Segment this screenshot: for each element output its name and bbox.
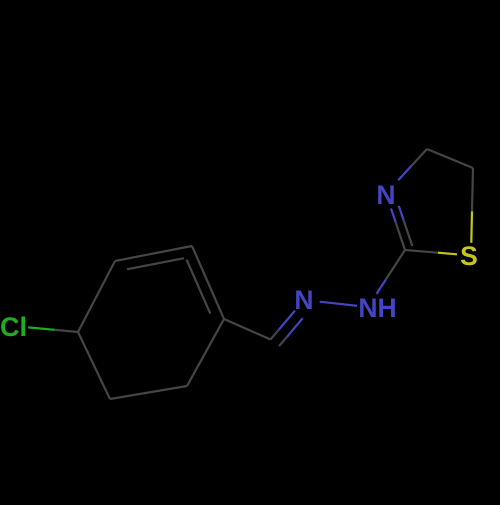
bond C4-C5 (CH2-CH2)	[427, 149, 473, 168]
bond N3-C4 (#454545 half)	[411, 149, 427, 166]
bond C2=N3 second line (#4545c4 half)	[399, 206, 404, 220]
bond Cl-C1 (aryl chloride) (#1fae1f half)	[28, 327, 54, 329]
bond C2=N3 main line (#4545c4 half)	[391, 209, 396, 223]
benzene edge C3-C4 (double)	[192, 246, 224, 319]
bond CH=N1 second line (#454545 half)	[279, 337, 287, 346]
benzene C2=C3 inner double-bond line	[127, 258, 184, 269]
bond S-C2 (#454545 half)	[405, 250, 438, 253]
bond N2-C2 (NH to thiazoline C2) (#454545 half)	[386, 250, 405, 280]
bond CH=N1 second line (#4545c4 half)	[287, 318, 303, 337]
bond C2=N3 second line (#454545 half)	[403, 220, 412, 246]
svg-text:S: S	[460, 241, 478, 271]
bond C2=N3 main line (#454545 half)	[396, 222, 405, 250]
svg-text:NH: NH	[358, 293, 396, 323]
svg-text:N: N	[294, 285, 313, 315]
bond S-C2 (#c6c619 half)	[438, 253, 457, 255]
bond C5-S (#c6c619 half)	[470, 211, 473, 242]
bond C4-CH (benzylidene CH)	[224, 319, 271, 340]
bond N1-N2 (hydrazine N-N)	[320, 302, 357, 306]
bond N3-C4 (#4545c4 half)	[398, 166, 411, 180]
svg-text:Cl: Cl	[0, 312, 27, 342]
benzene edge C6-C1	[78, 332, 110, 399]
bond N2-C2 (NH to thiazoline C2) (#4545c4 half)	[377, 280, 386, 294]
benzene C3=C4 inner double-bond line	[187, 260, 211, 314]
bond CH=N1 main line (#454545 half)	[271, 330, 279, 340]
benzene edge C1-C2	[78, 261, 115, 332]
benzene edge C5-C6	[110, 386, 187, 399]
svg-text:N: N	[376, 180, 395, 210]
bond C5-S (#454545 half)	[472, 168, 473, 211]
benzene edge C2-C3 (double)	[115, 246, 192, 261]
benzene edge C4-C5	[187, 319, 224, 386]
bond Cl-C1 (aryl chloride) (#454545 half)	[55, 330, 78, 332]
bond CH=N1 main line (#4545c4 half)	[279, 311, 295, 330]
